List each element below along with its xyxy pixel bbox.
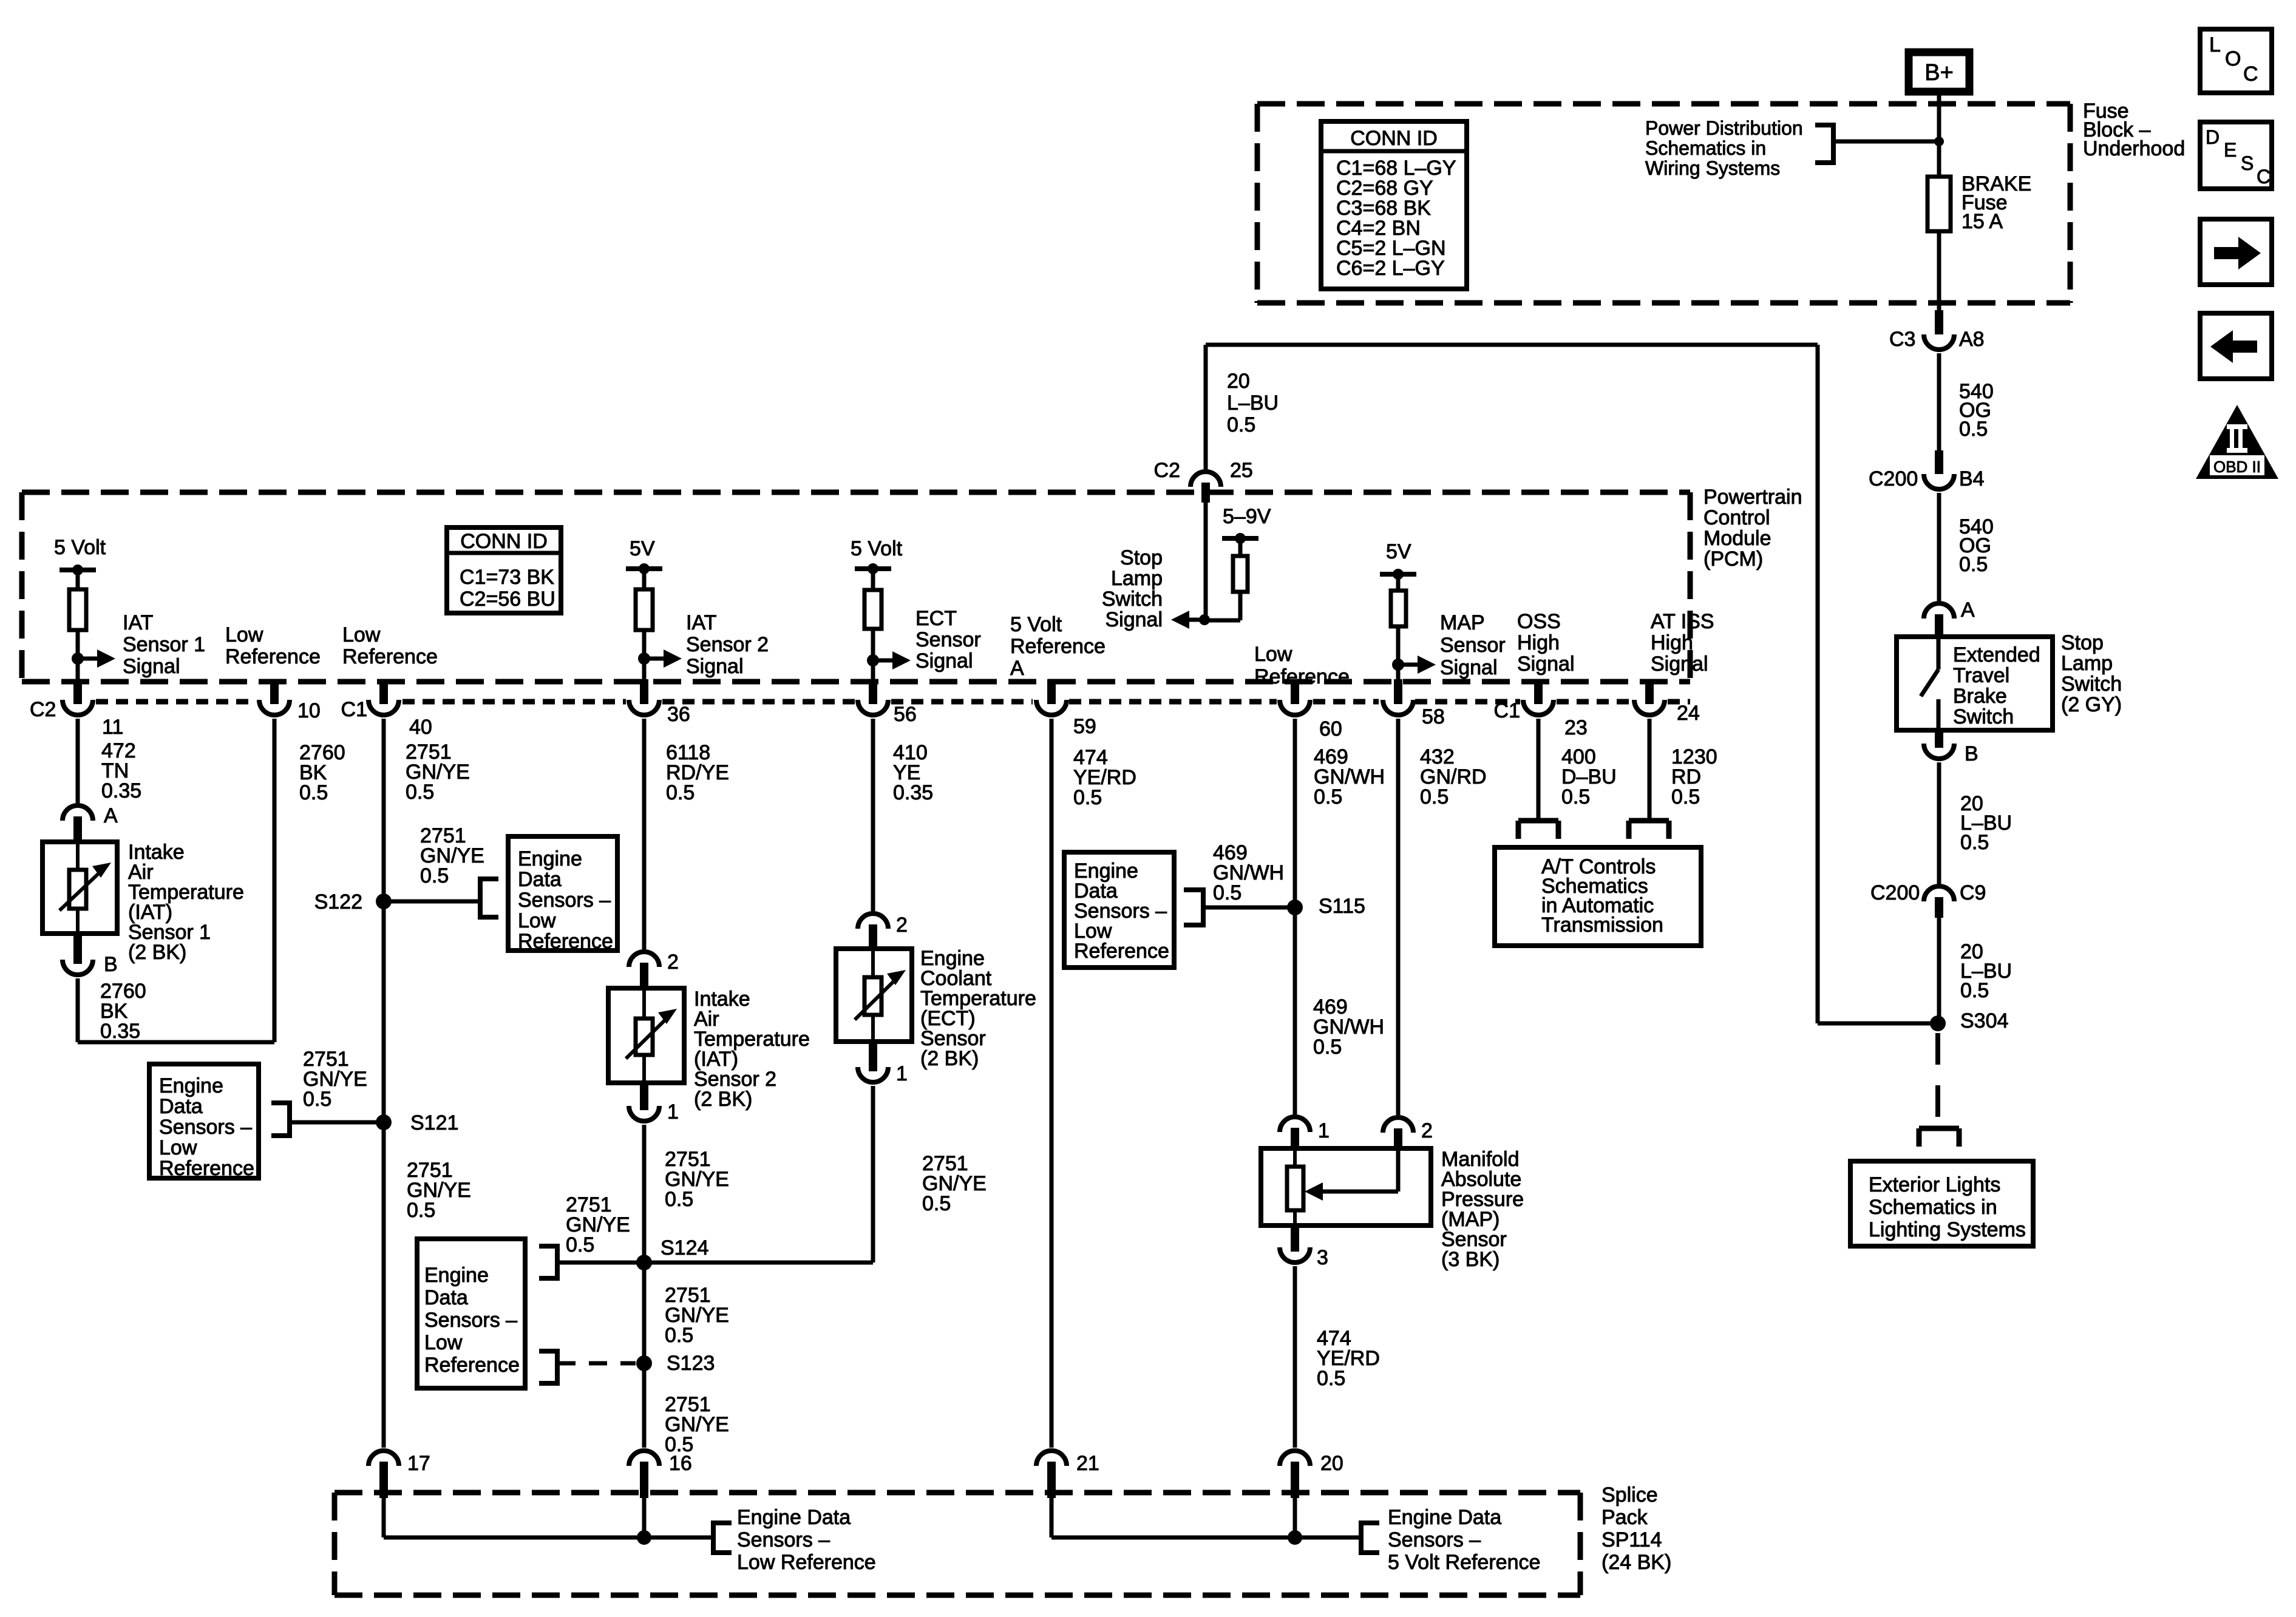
svg-text:S123: S123 — [667, 1352, 715, 1375]
connector pin 24 — [1634, 679, 1700, 725]
Intake Air Temperature IAT Sensor 2 box — [608, 988, 684, 1083]
Extended Travel Brake Switch — [1897, 637, 2053, 730]
wire resistor to node — [1396, 626, 1401, 682]
svg-text:Signal: Signal — [123, 655, 180, 678]
ECT Sensor Signal label — [915, 607, 981, 673]
wire resistor to node — [871, 629, 875, 682]
OSS High Signal label — [1517, 610, 1575, 676]
svg-text:A: A — [1010, 657, 1024, 680]
svg-text:(3 BK): (3 BK) — [1441, 1248, 1500, 1271]
wire B+ down to fuse — [1937, 95, 1941, 177]
connector pin 2 (IAT2) — [629, 951, 679, 988]
svg-text:Wiring Systems: Wiring Systems — [1645, 157, 1780, 179]
svg-text:0.35: 0.35 — [100, 1020, 140, 1043]
svg-text:C2: C2 — [1154, 459, 1180, 482]
svg-text:B: B — [104, 953, 118, 976]
svg-text:36: 36 — [667, 703, 690, 726]
wire down to C2 pin 25 — [1204, 345, 1208, 469]
svg-text:Data: Data — [518, 868, 562, 891]
svg-text:C200: C200 — [1870, 881, 1920, 904]
svg-text:0.5: 0.5 — [1314, 785, 1342, 808]
MAP Sensor label — [1441, 1148, 1524, 1271]
svg-text:(24 BK): (24 BK) — [1601, 1551, 1671, 1574]
wire label 540 OG 0.5 — [1959, 380, 1994, 441]
svg-text:Lamp: Lamp — [2061, 652, 2113, 675]
connector C1 pin 40 — [341, 679, 432, 739]
svg-text:0.5: 0.5 — [420, 864, 449, 887]
svg-text:Sensor: Sensor — [915, 628, 981, 651]
svg-text:1: 1 — [1318, 1119, 1330, 1142]
svg-text:C: C — [2243, 63, 2258, 86]
svg-text:Engine: Engine — [424, 1264, 489, 1287]
svg-text:25: 25 — [1230, 459, 1253, 482]
Splice Pack SP114 dashed box — [335, 1493, 1580, 1595]
wire label 469 GN/WH 0.5 (above S115) — [1213, 841, 1284, 904]
svg-text:Switch: Switch — [1953, 705, 2014, 728]
svg-text:D: D — [2206, 126, 2220, 148]
wire pin 36 to IAT2 — [642, 719, 647, 949]
connector pin B (brake switch) — [1924, 730, 1978, 765]
svg-text:5 Volt: 5 Volt — [54, 536, 106, 559]
wire MAP pin 3 to pin 20 — [1293, 1266, 1297, 1448]
svg-text:B: B — [1965, 742, 1978, 765]
svg-text:Powertrain: Powertrain — [1703, 486, 1802, 509]
svg-text:60: 60 — [1319, 717, 1342, 741]
svg-text:0.5: 0.5 — [1671, 785, 1700, 808]
bracket (low reference bus) — [713, 1520, 732, 1555]
wire label 20 L-BU 0.5 (3) — [1227, 370, 1279, 436]
svg-text:0.5: 0.5 — [1227, 413, 1255, 436]
resistor (5-9V) — [1233, 556, 1248, 592]
svg-text:Reference: Reference — [225, 645, 321, 668]
svg-text:S304: S304 — [1960, 1009, 2008, 1032]
connector pin 2 (MAP) — [1383, 1117, 1433, 1148]
splice S123 — [636, 1352, 715, 1375]
svg-text:0.5: 0.5 — [1213, 881, 1241, 904]
wire C3 to C200 — [1937, 353, 1941, 453]
svg-text:Low: Low — [424, 1331, 463, 1354]
svg-text:E: E — [2224, 139, 2237, 161]
svg-text:Signal: Signal — [1105, 608, 1163, 631]
svg-text:OSS: OSS — [1517, 610, 1561, 633]
svg-text:Exterior Lights: Exterior Lights — [1869, 1173, 2000, 1196]
wire S123 to pin 16 — [642, 1363, 647, 1448]
svg-text:Signal: Signal — [915, 649, 973, 673]
svg-text:5 Volt: 5 Volt — [851, 537, 903, 560]
svg-text:0.5: 0.5 — [1959, 418, 1988, 441]
svg-text:Engine: Engine — [159, 1074, 223, 1097]
wire label 2751 GN/YE 0.5 (above S122) — [420, 824, 484, 887]
svg-text:Signal: Signal — [686, 655, 744, 678]
node IAT2 signal with arrow — [638, 649, 682, 668]
svg-text:16: 16 — [669, 1452, 692, 1475]
svg-text:S124: S124 — [661, 1236, 708, 1259]
svg-text:Lamp: Lamp — [1111, 567, 1163, 590]
svg-text:C6=2 L–GY: C6=2 L–GY — [1336, 257, 1445, 280]
left arrow icon — [2200, 313, 2272, 379]
connector pin 21 (splice pack) — [1036, 1451, 1099, 1498]
svg-text:C200: C200 — [1869, 467, 1918, 490]
wire label 2751 GN/YE 0.5 (pin 40) — [406, 741, 470, 804]
svg-text:Switch: Switch — [1102, 588, 1163, 611]
bracket (5V reference bus) — [1361, 1520, 1379, 1555]
svg-text:Splice: Splice — [1601, 1483, 1658, 1507]
svg-text:10: 10 — [297, 699, 321, 722]
svg-text:SP114: SP114 — [1601, 1528, 1662, 1551]
svg-text:Reference: Reference — [1010, 635, 1106, 658]
callout bracket — [1815, 123, 1833, 165]
wire label 2751 GN/YE 0.5 (S124-S123) — [665, 1284, 729, 1347]
wire label 2751 GN/YE 0.5 (IAT2 to S124) — [665, 1148, 729, 1211]
Engine Coolant Temperature ECT Sensor box — [836, 949, 912, 1042]
wire label 1230 RD 0.5 — [1671, 745, 1717, 808]
wire C200 to brake switch — [1937, 493, 1941, 601]
svg-text:11: 11 — [102, 716, 123, 739]
wire label 20 L-BU 0.5 (2) — [1960, 940, 2012, 1002]
svg-text:IAT: IAT — [123, 611, 153, 634]
svg-text:Reference: Reference — [424, 1354, 520, 1377]
BRAKE Fuse 15 A — [1927, 172, 2031, 233]
svg-text:C1: C1 — [341, 698, 367, 721]
Splice Pack SP114 label — [1601, 1483, 1671, 1574]
svg-text:Engine: Engine — [518, 847, 582, 870]
svg-text:Schematics in: Schematics in — [1645, 137, 1766, 159]
svg-text:Reference: Reference — [342, 645, 438, 668]
wire C2 25 down to node — [1204, 503, 1208, 620]
svg-text:(2 GY): (2 GY) — [2061, 693, 2122, 716]
junction node — [1934, 137, 1944, 146]
svg-text:Transmission: Transmission — [1541, 914, 1663, 937]
svg-text:(2 BK): (2 BK) — [128, 941, 186, 964]
svg-text:S115: S115 — [1319, 895, 1365, 918]
connector pin 36 — [629, 679, 690, 726]
Low Reference label (pin 60) — [1254, 643, 1350, 688]
wire IAT2 pin1 to S124 — [642, 1125, 647, 1263]
svg-text:C3: C3 — [1889, 328, 1915, 351]
svg-text:Stop: Stop — [1120, 546, 1163, 569]
wire resistor to node — [76, 630, 80, 682]
resistor (IAT2 pullup) — [636, 589, 653, 630]
svg-text:S: S — [2241, 152, 2254, 174]
wire S115 to MAP pin 1 — [1293, 907, 1297, 1114]
svg-text:0.35: 0.35 — [893, 781, 933, 804]
svg-text:Lighting Systems: Lighting Systems — [1869, 1218, 2026, 1241]
svg-text:20: 20 — [1227, 370, 1250, 393]
svg-text:1: 1 — [896, 1062, 908, 1085]
svg-text:ECT: ECT — [915, 607, 957, 630]
wire stop lamp feed (vertical) — [1816, 345, 1820, 1023]
svg-text:Pack: Pack — [1601, 1506, 1648, 1529]
Engine Data Sensors Low Reference box (S121) — [149, 1064, 259, 1180]
wire label 20 L-BU 0.5 — [1960, 792, 2012, 854]
svg-text:2: 2 — [667, 951, 679, 974]
svg-text:Brake: Brake — [1953, 685, 2007, 708]
IAT Sensor 1 label — [128, 841, 244, 964]
wire pin 23 down — [1537, 719, 1541, 821]
wire bracket to S124 and on to ECT — [557, 1086, 873, 1263]
svg-text:0.5: 0.5 — [922, 1192, 951, 1215]
svg-text:Power Distribution: Power Distribution — [1645, 117, 1803, 139]
svg-text:17: 17 — [407, 1452, 430, 1475]
svg-text:MAP: MAP — [1440, 611, 1485, 634]
power feed B+ terminal — [1909, 52, 1969, 92]
wire stop lamp feed (horizontal to S304) — [1818, 1022, 1938, 1026]
svg-text:High: High — [1651, 631, 1693, 654]
connector C2 pin 25 (PCM top) — [1154, 459, 1253, 503]
connector pin B (IAT1) — [63, 934, 118, 976]
svg-text:(2 BK): (2 BK) — [920, 1047, 979, 1070]
svg-text:0.5: 0.5 — [1313, 1036, 1342, 1059]
bracket (S122 callout) — [480, 876, 498, 920]
node ECT signal with arrow — [867, 651, 911, 670]
Stop Lamp Switch Signal label — [1102, 546, 1163, 631]
connector pin 1 (IAT2) — [629, 1083, 679, 1124]
OBD II triangle icon — [2196, 405, 2278, 479]
splice S122 — [314, 890, 392, 914]
connector pin 17 (splice pack) — [369, 1451, 430, 1498]
svg-text:(PCM): (PCM) — [1703, 547, 1763, 571]
wire label 469 GN/WH 0.5 (pin 60) — [1314, 745, 1385, 808]
Fuse Block label — [2083, 100, 2185, 160]
dashed wire S304 to exterior lights — [1935, 1033, 1940, 1122]
bracket (S123 callout) — [539, 1349, 557, 1386]
wire pin 60 to S115 — [1293, 719, 1297, 907]
IAT Sensor 1 Signal label — [123, 611, 205, 678]
svg-text:Extended: Extended — [1953, 643, 2040, 666]
wire bracket to S115 — [1203, 906, 1295, 910]
5-9V source (stop lamp sense) — [1222, 505, 1271, 556]
connector pin 58 — [1383, 679, 1445, 728]
svg-text:IAT: IAT — [686, 611, 716, 634]
svg-text:1: 1 — [667, 1100, 679, 1124]
svg-text:40: 40 — [409, 716, 432, 739]
exterior lights bracket — [1919, 1128, 1959, 1147]
AT ISS High Signal label — [1651, 610, 1714, 676]
svg-text:0.5: 0.5 — [1073, 786, 1102, 809]
ECT Sensor label — [920, 947, 1036, 1070]
svg-text:A: A — [104, 804, 118, 827]
wire label 2751 GN/YE 0.5 (bracket S124) — [566, 1193, 630, 1256]
wire resistor to node — [642, 630, 647, 682]
Exterior Lights Schematics box — [1850, 1161, 2033, 1246]
svg-text:High: High — [1517, 631, 1560, 654]
svg-text:(2 BK): (2 BK) — [694, 1088, 752, 1111]
wire label 2751 GN/YE 0.5 (below S123) — [665, 1393, 729, 1456]
resistor (MAP pullup) — [1391, 591, 1406, 626]
svg-text:59: 59 — [1073, 715, 1096, 738]
svg-text:Switch: Switch — [2061, 673, 2122, 696]
svg-text:CONN ID: CONN ID — [460, 530, 548, 553]
wire S122 to bracket — [384, 900, 480, 904]
svg-text:CONN ID: CONN ID — [1350, 127, 1438, 150]
wire label 2751 GN/YE 0.5 (ECT to corner) — [922, 1152, 987, 1215]
Engine Data Sensors Low Reference box (S122) — [508, 836, 617, 953]
svg-text:Sensor: Sensor — [1440, 634, 1506, 657]
svg-text:0.5: 0.5 — [299, 781, 328, 804]
splice-pack low reference bus — [384, 1498, 713, 1545]
svg-text:Signal: Signal — [1651, 653, 1708, 676]
right arrow icon — [2200, 219, 2272, 285]
svg-text:C2=56 BU: C2=56 BU — [460, 588, 555, 611]
connector C200 pin B4 — [1869, 450, 1985, 490]
wire pin 11 to IAT1 A — [76, 719, 80, 803]
svg-text:Underhood: Underhood — [2083, 137, 2185, 160]
connector pin A (IAT1) — [63, 804, 118, 842]
wire bracket to S121 — [290, 1120, 384, 1125]
5V source (IAT sensor 2) — [626, 537, 662, 589]
svg-text:OBD II: OBD II — [2213, 458, 2261, 476]
Manifold Absolute Pressure MAP Sensor box — [1261, 1148, 1431, 1225]
Intake Air Temperature IAT Sensor 1 box — [42, 842, 117, 934]
bracket (S121 callout) — [271, 1100, 290, 1138]
svg-text:Schematics in: Schematics in — [1869, 1196, 1997, 1219]
svg-text:C9: C9 — [1960, 881, 1986, 904]
CONN ID table (PCM) — [447, 527, 561, 613]
connector pin 1 (ECT) — [858, 1042, 908, 1085]
IAT Sensor 2 label — [694, 988, 810, 1111]
IAT Sensor 2 Signal label — [686, 611, 769, 678]
svg-text:0.5: 0.5 — [407, 1199, 435, 1222]
wire stop lamp feed (top horizontal) — [1206, 343, 1818, 347]
connector pin 56 — [858, 679, 917, 726]
wire pin 56 to ECT — [871, 719, 875, 911]
svg-text:C1=73 BK: C1=73 BK — [460, 566, 554, 589]
wire pin 59 to pin 21 — [1050, 719, 1054, 1448]
svg-text:Signal: Signal — [1517, 653, 1575, 676]
Engine Data Sensors Low Reference label (splice) — [737, 1506, 876, 1574]
wire pin 40 to S122 — [382, 719, 386, 901]
wire label 400 D-BU 0.5 — [1561, 745, 1617, 808]
wire C9 to S304 — [1937, 918, 1941, 1016]
svg-text:0.5: 0.5 — [566, 1233, 594, 1256]
svg-text:0.5: 0.5 — [1959, 553, 1988, 576]
wire label 2751 GN/YE 0.5 (below S121) — [407, 1159, 471, 1222]
Engine Data Sensors 5 Volt Reference label (splice) — [1388, 1506, 1540, 1574]
svg-text:Sensors –: Sensors – — [518, 889, 611, 912]
svg-text:Travel: Travel — [1953, 664, 2009, 687]
svg-text:Stop: Stop — [2061, 631, 2104, 654]
DESC icon — [2200, 122, 2272, 189]
connector pin 1 (MAP) — [1280, 1117, 1330, 1148]
connector pin 3 (MAP) — [1280, 1225, 1328, 1269]
wire label 2751 GN/YE 0.5 (S122-S121) — [303, 1048, 367, 1111]
wire S122 to S121 — [382, 901, 386, 1122]
resistor (ECT pullup) — [864, 590, 881, 629]
svg-text:0.5: 0.5 — [1960, 831, 1989, 854]
MAP Sensor Signal label — [1440, 611, 1506, 679]
svg-text:21: 21 — [1076, 1452, 1099, 1475]
svg-text:0.5: 0.5 — [1960, 979, 1989, 1002]
splice S124 — [636, 1236, 708, 1270]
svg-text:5 Volt: 5 Volt — [1010, 613, 1062, 636]
wire label 474 YE/RD 0.5 (pin 59) — [1073, 746, 1136, 809]
svg-text:Signal: Signal — [1440, 656, 1498, 679]
connector pin 16 (splice pack) — [629, 1451, 692, 1498]
svg-text:Reference: Reference — [159, 1157, 254, 1180]
svg-text:58: 58 — [1422, 705, 1445, 728]
wire label 469 GN/WH 0.5 (below S115) — [1313, 995, 1384, 1059]
wire 5-9V resistor corner — [1204, 592, 1240, 620]
svg-text:Low: Low — [1254, 643, 1292, 666]
connector pin 59 — [1036, 679, 1096, 738]
connector C200 pin C9 — [1870, 881, 1986, 918]
splice S115 — [1287, 895, 1365, 918]
wire label 474 YE/RD 0.5 (MAP to pin 20) — [1317, 1327, 1380, 1390]
svg-text:Sensor 2: Sensor 2 — [686, 633, 769, 656]
connector C2 pin 11 — [30, 679, 123, 739]
wire S124 to S123 — [642, 1263, 647, 1363]
5 Volt source (ECT sensor) — [851, 537, 903, 590]
wire label 472 TN 0.35 — [101, 739, 141, 802]
svg-text:Reference: Reference — [1074, 940, 1169, 963]
svg-text:S121: S121 — [410, 1111, 458, 1134]
wire IAT1 B to pin 10 loop — [78, 719, 274, 1042]
splice S121 — [376, 1111, 458, 1134]
Power Distribution callout label — [1645, 117, 1803, 179]
Low Reference label (pin 40) — [342, 623, 438, 668]
svg-text:2: 2 — [896, 914, 908, 937]
svg-text:5V: 5V — [630, 537, 655, 560]
svg-text:0.5: 0.5 — [1317, 1367, 1345, 1390]
svg-text:Engine Data: Engine Data — [1388, 1506, 1501, 1529]
svg-text:24: 24 — [1677, 702, 1700, 725]
svg-text:S122: S122 — [314, 890, 362, 914]
connector pin 20 (splice pack) — [1280, 1451, 1343, 1498]
node IAT1 signal with arrow — [72, 649, 115, 668]
5V source (MAP sensor) — [1380, 540, 1416, 591]
Low Reference label (pin 10) — [225, 623, 321, 668]
svg-text:5V: 5V — [1386, 540, 1411, 563]
Engine Data Sensors Low Reference box (S115) — [1064, 852, 1174, 968]
svg-text:Sensors –: Sensors – — [159, 1116, 252, 1139]
Fuse Block - Underhood dashed box — [1257, 104, 2070, 303]
PCM connector row dashed line — [96, 699, 1690, 705]
svg-text:0.5: 0.5 — [1420, 785, 1449, 808]
svg-text:Low Reference: Low Reference — [737, 1551, 876, 1574]
wire label 2760 BK 0.5 — [299, 741, 345, 804]
node MAP signal with arrow — [1392, 656, 1436, 674]
Engine Data Sensors Low Reference box (S124/S123) — [417, 1239, 525, 1388]
svg-text:15 A: 15 A — [1961, 210, 2003, 233]
splice S304 — [1930, 1009, 2008, 1032]
A/T bracket (pin 24) — [1629, 821, 1669, 839]
svg-text:C: C — [2257, 166, 2271, 188]
dashed wire bracket to S123 — [557, 1361, 636, 1366]
svg-text:C1: C1 — [1494, 699, 1520, 722]
svg-text:Sensors –: Sensors – — [737, 1528, 830, 1551]
svg-text:Engine Data: Engine Data — [737, 1506, 851, 1529]
wire pin 58 to MAP pin 2 — [1396, 719, 1401, 1115]
svg-text:5–9V: 5–9V — [1223, 505, 1271, 528]
svg-text:O: O — [2225, 47, 2241, 70]
connector pin 10 — [259, 679, 321, 722]
wire fuse to C3 — [1937, 231, 1941, 313]
svg-text:Control: Control — [1703, 506, 1770, 529]
svg-text:B+: B+ — [1924, 60, 1954, 86]
svg-text:L: L — [2209, 33, 2221, 56]
svg-text:Module: Module — [1703, 527, 1771, 550]
svg-text:0.5: 0.5 — [666, 781, 695, 804]
svg-text:0.5: 0.5 — [1561, 785, 1590, 808]
svg-text:Low: Low — [159, 1136, 197, 1159]
svg-text:56: 56 — [894, 703, 917, 726]
wire B to C200 C9 — [1937, 762, 1941, 884]
5 Volt Reference A label — [1010, 613, 1106, 680]
connector C3 pin A8 — [1889, 310, 1985, 351]
svg-text:Sensors –: Sensors – — [1388, 1528, 1481, 1551]
wire label 2760 BK 0.35 — [100, 980, 146, 1043]
wire S121 to pin 17 — [382, 1122, 386, 1448]
